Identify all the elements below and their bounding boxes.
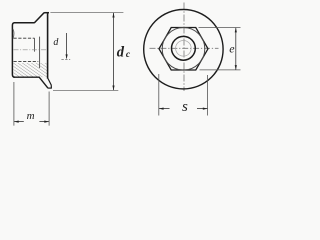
dimension d: extension dashes (61, 58, 70, 60)
dimension d_c: top arrowhead (112, 13, 114, 18)
flange rim top edge (45, 12, 50, 14)
svg-text:d: d (117, 44, 125, 60)
flange rim bottom edge (48, 87, 52, 89)
dimension d_c: bottom extension line (53, 89, 118, 91)
hole inner circle (176, 41, 192, 57)
nut top edge (14, 22, 35, 24)
dimension s: right extension line (207, 75, 209, 116)
dimension e: top arrowhead (235, 28, 237, 33)
serration/section hatch band on flange area (14, 63, 48, 77)
dimension m: left extension line (13, 82, 15, 126)
dimension s: right arrow (197, 108, 207, 110)
dimension m: right extension line (48, 92, 50, 126)
dimension s: left extension line (158, 74, 160, 116)
dimension e: dimension line (235, 28, 237, 70)
chamfer arc on left face (13, 29, 14, 38)
dimension d: arrowhead (66, 54, 68, 59)
dimension d_c: top extension line (50, 12, 123, 14)
dimension m: right arrow (39, 121, 48, 123)
dimension d_c: bottom arrowhead (112, 86, 114, 91)
flange rim serration tooth (section): upper slant (48, 78, 52, 85)
svg-text:s: s (182, 99, 188, 115)
upper flange cone (34, 13, 45, 23)
dimension m: left arrow (14, 121, 24, 123)
horizontal centerline (150, 47, 219, 49)
dimension d_c: dimension line (113, 13, 115, 91)
inner vertical line (cone root) (39, 37, 41, 68)
flange face line (47, 13, 49, 78)
dimension d: leader line (66, 33, 68, 58)
svg-text:e: e (229, 41, 235, 55)
axis centerline (left view) (14, 49, 47, 51)
vertical centerline (183, 3, 185, 92)
hexagon (159, 28, 208, 71)
nut left face (12, 23, 14, 77)
dimension e: bottom extension line (200, 69, 241, 71)
thread circle (172, 36, 196, 60)
thread hole hidden line (bottom) (14, 61, 39, 63)
flange outer circle (144, 10, 223, 89)
chamfer circle (162, 28, 205, 71)
dimension s: left arrow (159, 108, 169, 110)
dimension e: bottom arrowhead (235, 65, 237, 70)
dimension e: top extension line (199, 27, 241, 29)
tooth tip vertical (50, 85, 52, 88)
inner vertical line (hole step) (34, 38, 36, 51)
svg-text:m: m (27, 110, 35, 122)
thread hole hidden line (top) (14, 37, 35, 39)
nut bottom edge (section) (14, 76, 40, 78)
lower flange cone (sectioned, serrated) (39, 77, 48, 88)
